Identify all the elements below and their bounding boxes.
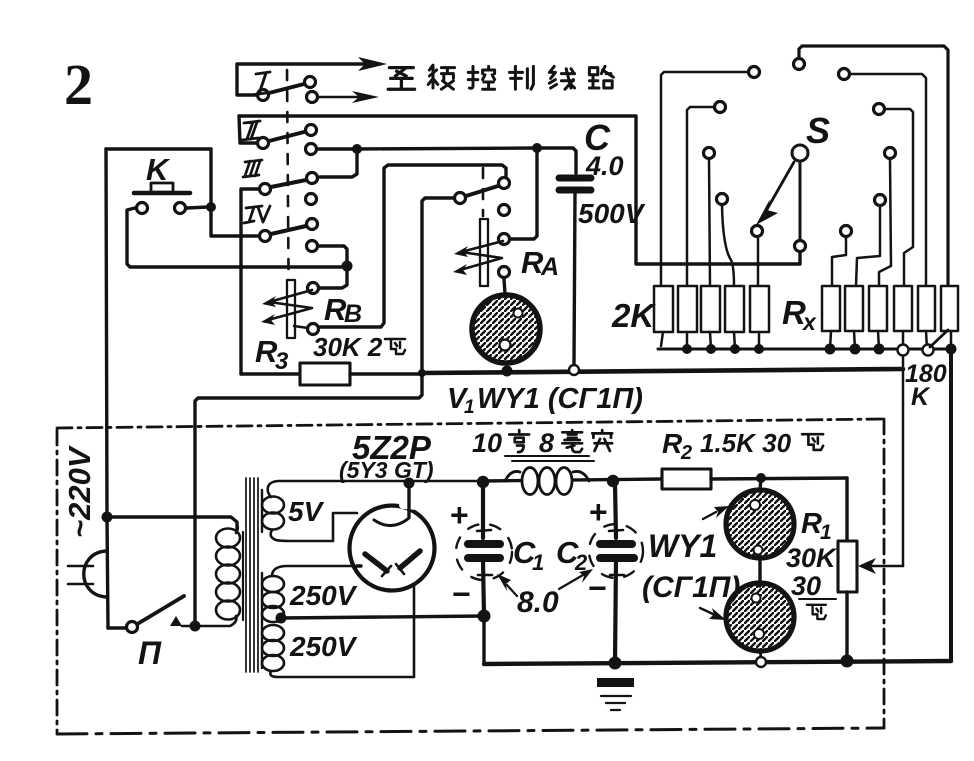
svg-text:1: 1 bbox=[532, 550, 544, 575]
svg-text:30: 30 bbox=[791, 571, 821, 601]
switch I upper right contact bbox=[305, 77, 316, 88]
dash-dot enclosure right side bbox=[883, 419, 886, 727]
wire: switch III left contact down to R3 bbox=[241, 189, 258, 374]
wire: P contact to mains rail bbox=[108, 626, 125, 629]
label I bbox=[252, 72, 270, 95]
svg-text:R: R bbox=[662, 428, 683, 459]
switch IV lower right contact bbox=[307, 241, 318, 252]
filter choke 10H 8mA bbox=[505, 468, 589, 495]
switch I blade bbox=[269, 84, 304, 93]
transformer 5V winding frame bbox=[261, 490, 263, 532]
transformer 5V winding bbox=[262, 481, 483, 541]
pushbutton K right contact bbox=[175, 203, 186, 214]
wire: switch I feed bracket with arrow to controlled line bbox=[237, 64, 368, 95]
switch I lower right contact bbox=[307, 92, 318, 103]
wire: right rail down from bus bbox=[949, 349, 953, 661]
wire: contact R3 to resistor RX-3 bbox=[879, 160, 891, 286]
wire: K box top bbox=[106, 147, 211, 150]
tube V1 envelope bbox=[472, 295, 540, 363]
label: Chinese title to controlled circuit bbox=[388, 68, 414, 90]
wire: contact L2 to resistor 2K-2 bbox=[687, 107, 713, 286]
node: R3/mains rail crossing bbox=[418, 369, 426, 377]
svg-text:WY1: WY1 bbox=[648, 528, 717, 564]
wire: contact L4 to resistor 2K-4 bbox=[722, 206, 734, 286]
svg-text:30K 2: 30K 2 bbox=[313, 332, 383, 362]
capacitor C1 bottom lead bbox=[483, 560, 484, 616]
resistor RX-2 bbox=[845, 286, 863, 331]
S contact L1 bbox=[749, 67, 760, 78]
rheostat RB slider bar bbox=[287, 280, 295, 338]
dash-dot enclosure bottom side bbox=[57, 728, 884, 734]
svg-text:−: − bbox=[452, 576, 471, 612]
transformer primary winding bbox=[182, 524, 240, 626]
resistor 2K-3 bbox=[701, 286, 720, 332]
wire: contact R1 to resistor RX-5 bbox=[851, 74, 926, 286]
rheostat RB top contact bbox=[308, 283, 319, 294]
arrow label to lower tube bbox=[700, 608, 713, 614]
wire: RA top terminal to capacitor branch bbox=[511, 148, 537, 239]
S contact R4 bbox=[875, 195, 886, 206]
wire: contact R2 to resistor RX-4 bbox=[886, 109, 913, 286]
node: centre tap junction bbox=[276, 613, 287, 624]
resistor R3 body bbox=[300, 363, 350, 385]
svg-text:8: 8 bbox=[539, 428, 554, 458]
WY1 upper inner electrode top bbox=[750, 500, 760, 510]
node: R1 bottom junction bbox=[841, 655, 854, 668]
rheostat RB bottom contact bbox=[308, 324, 319, 335]
RA selector lower contact bbox=[499, 205, 510, 216]
wire: ground bus bbox=[484, 661, 951, 664]
capacitor C2 dashed ring bbox=[589, 524, 643, 578]
wire: contact R5 to resistor RX-1 bbox=[832, 238, 846, 286]
rectifier 5Z2P envelope bbox=[350, 506, 435, 591]
resistor 2K-1 bbox=[654, 286, 673, 332]
node: bus junction RX-3 bbox=[874, 344, 885, 355]
S contact L4 bbox=[717, 194, 728, 205]
svg-text:5V: 5V bbox=[288, 496, 325, 527]
svg-text:500V: 500V bbox=[578, 198, 646, 229]
label W fraction bar bbox=[799, 598, 836, 600]
node: primary bottom junction bbox=[190, 621, 201, 632]
dashed gang line RA selector bbox=[482, 168, 485, 216]
wire: R1 bottom lead bbox=[845, 592, 848, 661]
S contact top bbox=[794, 59, 805, 70]
rheostat RB arrows bbox=[268, 290, 312, 320]
dashed gang line of switch bank bbox=[287, 70, 289, 335]
switch II lower right contact bbox=[306, 144, 317, 155]
resistor R3 right wire bbox=[350, 372, 422, 375]
svg-text:1.5K 30: 1.5K 30 bbox=[700, 428, 792, 458]
wire: contact L1 to resistor 2K-1 bbox=[661, 72, 747, 286]
label II bbox=[242, 121, 260, 140]
node: bus junction 2K-5 bbox=[754, 344, 764, 354]
svg-text:x: x bbox=[801, 309, 817, 335]
switch II bracket bbox=[239, 116, 256, 143]
S contact R2 bbox=[874, 104, 885, 115]
WY1 upper inner electrode bottom bbox=[754, 546, 763, 555]
node: bus right end bbox=[946, 344, 957, 355]
wire: junction to WY1 top tube bbox=[760, 478, 761, 490]
wire: R1 wiper feed down bbox=[902, 356, 905, 566]
wire: C1 junction to ground bus bbox=[482, 616, 485, 662]
regulator tube WY1 lower envelope bbox=[726, 583, 794, 651]
wire: K right contact to rail bbox=[187, 207, 208, 208]
node: bus junction 2K-4 bbox=[730, 344, 740, 354]
svg-text:4.0: 4.0 bbox=[585, 151, 624, 181]
wire: top contact to right rail into resistor RX-6 bbox=[799, 46, 948, 286]
node: bus junction RX-1 bbox=[825, 344, 836, 355]
S contact R5 bbox=[841, 226, 852, 237]
S contact R3 bbox=[885, 148, 896, 159]
pushbutton K left contact bbox=[137, 203, 148, 214]
svg-text:250V: 250V bbox=[289, 631, 358, 662]
svg-text:2K: 2K bbox=[611, 297, 656, 334]
node: WY1 top junction bbox=[756, 473, 766, 483]
svg-text:250V: 250V bbox=[289, 580, 358, 611]
capacitor C2 bottom lead bbox=[615, 560, 616, 663]
switch III blade bbox=[271, 180, 306, 187]
S contact L3 bbox=[704, 148, 715, 159]
dash-dot enclosure left side bbox=[56, 430, 59, 732]
switch III upper right contact bbox=[307, 173, 318, 184]
switch P fixed contact triangle bbox=[170, 616, 182, 626]
wire: junction to RB top contact bbox=[320, 266, 347, 288]
node: V1 bottom junction bbox=[502, 366, 513, 377]
tube V1 inner top electrode bbox=[514, 309, 523, 318]
svg-text:П: П bbox=[138, 635, 162, 671]
node: bus tap 180K bbox=[923, 345, 934, 356]
capacitor C2 top lead bbox=[615, 483, 616, 538]
resistor RX-5 bbox=[918, 286, 935, 331]
rheostat RA slider bar bbox=[480, 219, 488, 286]
wire: left anode to 250V upper bbox=[357, 564, 361, 567]
rheostat RA arrows bbox=[460, 241, 503, 270]
pushbutton K knob bbox=[151, 183, 173, 192]
tube V1 inner bottom electrode bbox=[500, 340, 511, 351]
switch IV left contact bbox=[260, 231, 271, 242]
WY1 lower inner electrode top bbox=[752, 594, 761, 603]
switch II upper right contact bbox=[306, 125, 317, 136]
rotary switch S pivot stem bbox=[799, 162, 802, 241]
transformer 250V lower winding bbox=[262, 566, 414, 677]
node: bus junction 2K-2 bbox=[682, 344, 692, 354]
capacitor C1 plates bbox=[468, 544, 500, 558]
svg-text:+: + bbox=[450, 497, 469, 533]
switch II left contact bbox=[258, 138, 269, 149]
switch P moving contact bbox=[127, 622, 138, 633]
node: C bus tap bbox=[569, 365, 579, 375]
wire: R2 to R1 bbox=[711, 478, 847, 479]
switch II blade bbox=[269, 132, 304, 141]
svg-text:S: S bbox=[806, 110, 830, 151]
resistor R3 left wire bbox=[241, 372, 300, 375]
RA selector left contact bbox=[455, 193, 466, 204]
wire: K box right rail down to switch IV bbox=[211, 149, 257, 236]
svg-text:8.0: 8.0 bbox=[517, 586, 559, 619]
resistor 2K-2 bbox=[678, 286, 697, 332]
rectifier filament arc bbox=[374, 518, 409, 526]
node: C2 top junction bbox=[607, 475, 619, 487]
svg-text:+: + bbox=[589, 494, 608, 530]
wire: contact R4 to resistor RX-2 bbox=[856, 207, 880, 286]
svg-text:10: 10 bbox=[472, 428, 502, 458]
transformer 250V upper winding bbox=[262, 566, 360, 622]
wire: R1 top lead bbox=[845, 478, 848, 541]
wire: junction down to switch III upper contact bbox=[320, 149, 357, 177]
switch IV blade bbox=[271, 226, 306, 234]
transformer primary frame bbox=[242, 532, 244, 620]
switch IV upper right contact bbox=[307, 219, 318, 230]
S contact L2 bbox=[715, 102, 726, 113]
switch I left contact bbox=[258, 90, 269, 101]
rotary switch S wiper arrow bbox=[766, 162, 794, 211]
node: bus junction 2K-3 bbox=[706, 344, 716, 354]
rectifier top lead bbox=[407, 484, 410, 517]
wire: C to anode bus bbox=[574, 193, 575, 364]
rheostat RA top terminal bbox=[499, 234, 510, 245]
node: bus junction RX-2 bbox=[850, 344, 861, 355]
resistor RX-4 bbox=[894, 286, 912, 331]
capacitor C1 top lead bbox=[481, 484, 485, 538]
capacitor C2 plates bbox=[600, 544, 634, 558]
regulator tube WY1 upper envelope bbox=[726, 490, 794, 558]
node: junction feeding switch III bbox=[352, 144, 362, 154]
svg-text:2: 2 bbox=[64, 52, 93, 117]
svg-text:1: 1 bbox=[820, 521, 832, 544]
svg-text:A: A bbox=[540, 253, 559, 281]
node: ground junction bbox=[609, 657, 622, 670]
node: C branch junction bbox=[532, 143, 542, 153]
svg-text:1: 1 bbox=[464, 397, 475, 418]
resistor R2 body bbox=[662, 469, 711, 489]
label III bbox=[243, 160, 262, 177]
rotary switch S pivot bbox=[792, 145, 808, 161]
capacitor C bottom plate bbox=[559, 187, 591, 194]
rectifier right anode bbox=[400, 551, 420, 568]
resistor RX-6 bbox=[941, 286, 958, 331]
wire: mains to transformer primary bbox=[107, 517, 237, 529]
label 10H 8mA underline bbox=[505, 456, 594, 461]
wire: 180K diagonal tap bbox=[930, 330, 948, 347]
node: K right contact junction bbox=[206, 202, 216, 212]
node: WY1 bottom junction bbox=[760, 651, 761, 657]
wire: 2K stubs to bus bbox=[661, 332, 759, 349]
node: C1 top junction bbox=[477, 476, 489, 488]
wire: between regulator tubes bbox=[758, 556, 761, 586]
switch III lower right contact bbox=[306, 194, 317, 205]
dash-dot enclosure top side bbox=[57, 419, 884, 428]
wire: contact L3 to resistor 2K-3 bbox=[709, 160, 710, 286]
svg-text:(СГ1П): (СГ1П) bbox=[642, 571, 740, 604]
wire: RB bottom to RA box bbox=[320, 165, 506, 327]
wire: resistor bottom bus bbox=[658, 348, 951, 351]
wire: long feed to S bottom contact bbox=[239, 116, 800, 264]
pushbutton K bar bbox=[134, 191, 190, 196]
transformer core bbox=[246, 478, 258, 672]
resistor RX-3 bbox=[869, 286, 887, 331]
node: mains junction bbox=[102, 512, 113, 523]
svg-text:30K: 30K bbox=[786, 543, 838, 573]
capacitor C1 dashed ring bbox=[456, 524, 512, 580]
wire: arrow from switch I lower contact bbox=[319, 96, 358, 98]
node: C1 bottom junction bbox=[478, 610, 491, 623]
arrow label to upper tube bbox=[703, 512, 716, 519]
wire: RX stubs to bus bbox=[830, 331, 951, 349]
resistor 2K-5 bbox=[750, 286, 769, 332]
svg-text:B: B bbox=[344, 300, 362, 328]
wire: switch IV lower contact to RB junction bbox=[319, 246, 347, 265]
wire: centre tap to C1 minus bbox=[281, 616, 484, 618]
rectifier left anode bbox=[365, 554, 387, 571]
capacitor C top plate bbox=[559, 175, 591, 182]
wire: RB bar stub bbox=[294, 326, 308, 328]
transformer 250V winding frame bbox=[261, 573, 263, 668]
svg-text:K: K bbox=[146, 152, 171, 187]
WY1 lower inner electrode bottom bbox=[754, 629, 764, 639]
wire: RA bottom terminal to tube V1 bbox=[504, 279, 505, 294]
wire: K box left rail down to mains bbox=[106, 149, 108, 628]
node: RB top junction bbox=[342, 261, 353, 272]
arrow 8.0 to C1 bbox=[507, 585, 517, 596]
svg-text:WY1 (СГ1П): WY1 (СГ1П) bbox=[477, 383, 643, 415]
wire: contact L5 to resistor 2K-5 bbox=[757, 238, 760, 286]
S contact L5 bbox=[752, 226, 763, 237]
wire: B+ rail choke section bbox=[483, 479, 662, 481]
wire: K left contact loop to RB junction bbox=[127, 208, 344, 267]
switch P blade bbox=[139, 596, 184, 623]
node: rectifier plate junction bbox=[404, 478, 415, 489]
resistor RX-1 bbox=[822, 286, 840, 331]
wire: switch II output to capacitor C branch bbox=[318, 148, 576, 173]
potentiometer R1 body bbox=[838, 541, 857, 592]
svg-text:R: R bbox=[801, 508, 822, 540]
rheostat RA bottom terminal bbox=[499, 267, 510, 278]
RA selector upper contact bbox=[499, 178, 510, 189]
mains plug body bbox=[84, 551, 107, 597]
node: bus tap to R1 wiper bbox=[898, 345, 909, 356]
label IV bbox=[244, 206, 270, 223]
svg-text:−: − bbox=[588, 570, 607, 606]
arrow 8.0 to C2 bbox=[559, 575, 583, 589]
mains plug pins bbox=[68, 566, 93, 584]
S contact R1 bbox=[839, 69, 850, 80]
S contact bottom bbox=[795, 241, 806, 252]
svg-text:3: 3 bbox=[275, 348, 289, 375]
svg-text:~220V: ~220V bbox=[62, 445, 97, 538]
RA selector blade bbox=[466, 186, 498, 196]
svg-text:K: K bbox=[911, 383, 931, 411]
wire: main anode bus bbox=[422, 369, 903, 373]
ground symbol bbox=[597, 678, 634, 687]
svg-text:2: 2 bbox=[680, 442, 692, 464]
svg-text:(5Y3 GT): (5Y3 GT) bbox=[339, 457, 434, 483]
R1 wiper arrow bbox=[868, 565, 903, 568]
wire: RA selector left contact to mains rail bbox=[195, 198, 453, 623]
switch III left contact bbox=[260, 184, 271, 195]
resistor 2K-4 bbox=[725, 286, 744, 332]
